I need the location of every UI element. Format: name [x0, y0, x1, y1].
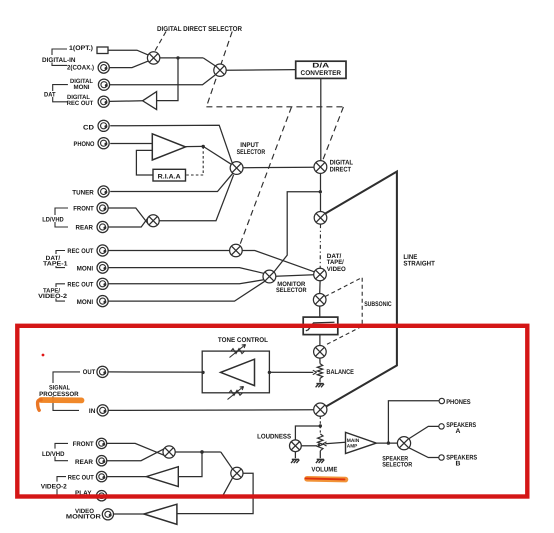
- svg-text:MONI: MONI: [74, 84, 90, 91]
- svg-text:AMP: AMP: [347, 443, 358, 449]
- svg-text:A: A: [456, 428, 461, 435]
- svg-text:D/A: D/A: [312, 63, 329, 70]
- svg-text:LD/VHD: LD/VHD: [42, 451, 65, 458]
- svg-text:TAPE-1: TAPE-1: [43, 261, 68, 268]
- svg-text:PHONO: PHONO: [74, 141, 95, 148]
- svg-text:SPEAKERS: SPEAKERS: [446, 422, 476, 429]
- svg-text:DIRECT: DIRECT: [330, 167, 352, 174]
- svg-text:BALANCE: BALANCE: [326, 369, 354, 376]
- svg-text:FRONT: FRONT: [73, 206, 94, 213]
- svg-text:SELECTOR: SELECTOR: [382, 462, 412, 469]
- svg-text:1(OPT.): 1(OPT.): [69, 45, 93, 52]
- svg-text:MONITOR: MONITOR: [66, 514, 102, 521]
- svg-text:DIGITAL DIRECT SELECTOR: DIGITAL DIRECT SELECTOR: [157, 26, 242, 33]
- svg-text:IN: IN: [89, 408, 96, 415]
- svg-text:REC OUT: REC OUT: [68, 474, 94, 481]
- svg-text:DIGITAL: DIGITAL: [330, 159, 354, 166]
- svg-text:CONVERTER: CONVERTER: [301, 70, 342, 77]
- svg-text:MONI: MONI: [77, 299, 94, 306]
- svg-text:DAT: DAT: [44, 92, 56, 99]
- svg-text:TUNER: TUNER: [72, 189, 94, 196]
- svg-text:STRAIGHT: STRAIGHT: [403, 261, 435, 268]
- svg-text:PROCESSOR: PROCESSOR: [39, 391, 79, 398]
- svg-text:SPEAKERS: SPEAKERS: [446, 454, 477, 461]
- svg-text:B: B: [456, 461, 461, 468]
- svg-text:REC OUT: REC OUT: [67, 248, 93, 255]
- svg-text:DIGITAL-IN: DIGITAL-IN: [42, 57, 76, 64]
- svg-text:REAR: REAR: [76, 225, 94, 232]
- svg-text:R.I.A.A: R.I.A.A: [158, 173, 181, 180]
- svg-text:SELECTOR: SELECTOR: [237, 149, 266, 156]
- svg-text:MONI: MONI: [77, 265, 94, 272]
- svg-text:REC OUT: REC OUT: [67, 282, 93, 289]
- svg-text:PHONES: PHONES: [446, 399, 471, 406]
- svg-text:CD: CD: [83, 124, 94, 131]
- svg-text:LD/VHD: LD/VHD: [42, 217, 64, 224]
- svg-text:VIDEO: VIDEO: [327, 266, 346, 273]
- svg-text:TONE CONTROL: TONE CONTROL: [218, 337, 268, 344]
- svg-text:SUBSONIC: SUBSONIC: [364, 301, 392, 308]
- svg-text:OUT: OUT: [83, 369, 96, 376]
- svg-text:INPUT: INPUT: [240, 142, 259, 149]
- svg-text:VIDEO-2: VIDEO-2: [38, 293, 68, 300]
- svg-text:REAR: REAR: [75, 459, 93, 466]
- svg-text:VOLUME: VOLUME: [311, 467, 337, 474]
- svg-text:2(COAX.): 2(COAX.): [67, 65, 94, 72]
- svg-text:FRONT: FRONT: [73, 441, 94, 448]
- svg-text:LOUDNESS: LOUDNESS: [257, 434, 291, 441]
- svg-text:REC OUT: REC OUT: [67, 100, 94, 107]
- svg-text:VIDEO-2: VIDEO-2: [41, 484, 67, 491]
- svg-text:SELECTOR: SELECTOR: [276, 287, 307, 294]
